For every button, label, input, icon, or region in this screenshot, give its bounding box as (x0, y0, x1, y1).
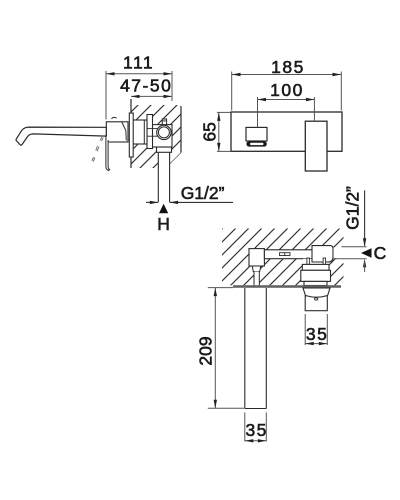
white strip between C leader lines (view 3) (334, 247, 367, 258)
ring (view 3) (301, 270, 331, 281)
lever (view 1) (106, 135, 110, 171)
svg-text:G1/2”: G1/2” (181, 183, 225, 203)
joint curve above spout block (112, 117, 117, 119)
G1/2 label (view 3, rotated) (364, 190, 366, 245)
cartridge circle (view 1) (157, 125, 171, 139)
dimension 209 (view 3) (208, 288, 244, 409)
right block (view 3) (312, 246, 333, 262)
dimension 100 (view 2) (258, 97, 315, 127)
wall hatching (view 1) (131, 105, 181, 168)
bolts (307, 258, 310, 264)
H marker triangle (view 1) (159, 204, 168, 213)
svg-text:H: H (157, 214, 170, 234)
svg-text:185: 185 (271, 57, 305, 77)
lever phantom break marks (92, 137, 103, 162)
dimension 35 handle (view 3) (305, 314, 327, 345)
svg-text:209: 209 (196, 336, 216, 365)
svg-text:47-50: 47-50 (120, 76, 172, 96)
dimension 47-50 (view 1) (131, 95, 172, 97)
spout rear block (view 1) (106, 122, 128, 142)
elbow neck (view 3) (252, 266, 260, 272)
spout front (view 2) (246, 127, 267, 141)
spout tube below wall (view 3) (245, 288, 266, 409)
G1/2 label (view 1) (170, 201, 233, 203)
elbow box (view 3) (249, 249, 264, 266)
spout (view 1) (16, 127, 106, 145)
dimension 65 (view 2) (217, 112, 231, 151)
arm (view 3) (264, 250, 313, 259)
flange (view 3) (302, 264, 329, 270)
svg-text:111: 111 (123, 53, 154, 73)
mounting flange (view 1) (147, 115, 153, 149)
connector lines flange-circle (view 1) (147, 128, 158, 130)
C leader lines (view 3) (342, 246, 367, 248)
dimension 185 (view 2) (232, 72, 342, 111)
supply pipe (view 1) (158, 152, 169, 202)
svg-text:35: 35 (245, 420, 267, 440)
svg-text:65: 65 (199, 122, 219, 141)
gap under block (303, 259, 329, 265)
dimple dot (315, 298, 318, 300)
valve lower box (view 1) (157, 147, 172, 152)
wall plate (view 2) (231, 112, 342, 151)
wall face thick line (view 3) (233, 285, 341, 288)
wall back line (view 1) (180, 106, 182, 153)
handle front (view 2) (305, 121, 327, 171)
valve main box (view 1) (151, 125, 173, 147)
cylinder to wall (view 3) (304, 281, 327, 285)
wall hatching (view 3) (222, 229, 344, 286)
escutcheon plate (view 1) (129, 113, 133, 157)
dimension 35 spout (view 3) (245, 413, 266, 442)
handle escutcheon trapezoid (view 3) (303, 288, 330, 297)
wall face line (view 1) (130, 99, 132, 168)
handle box below wall (view 3) (305, 296, 327, 311)
C marker triangle (view 3) (361, 248, 372, 257)
svg-text:35: 35 (306, 324, 328, 344)
top nipple (view 1) (162, 119, 166, 125)
svg-text:C: C (374, 243, 387, 263)
aerator (view 2) (246, 141, 266, 146)
elbow tube (view 3) (254, 272, 259, 286)
svg-text:G1/2”: G1/2” (343, 186, 363, 230)
body cylinder (view 1) (133, 120, 147, 144)
dimension 111 (view 1) (106, 71, 172, 119)
svg-text:100: 100 (270, 80, 304, 100)
arm slots (280, 253, 291, 256)
